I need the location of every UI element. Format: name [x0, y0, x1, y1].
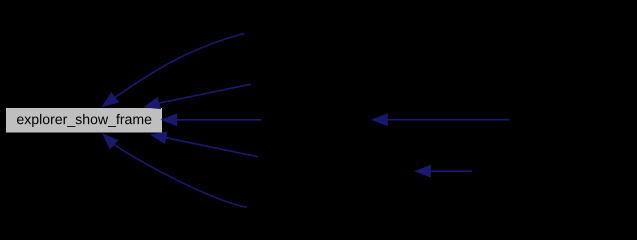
edge from caller5 (bottom right) to explorer_show_frame [103, 134, 247, 207]
edge from caller7 to caller4 [415, 166, 472, 177]
edge from caller4 to explorer_show_frame [151, 132, 258, 157]
edge from caller2 to explorer_show_frame [144, 84, 251, 108]
edge from caller3 to explorer_show_frame [162, 114, 262, 125]
node explorer_show_frame (current function, grey fill) [6, 108, 163, 134]
edge from caller1 (top right) to explorer_show_frame [103, 34, 245, 107]
edge from caller6 to caller3 [372, 114, 509, 125]
